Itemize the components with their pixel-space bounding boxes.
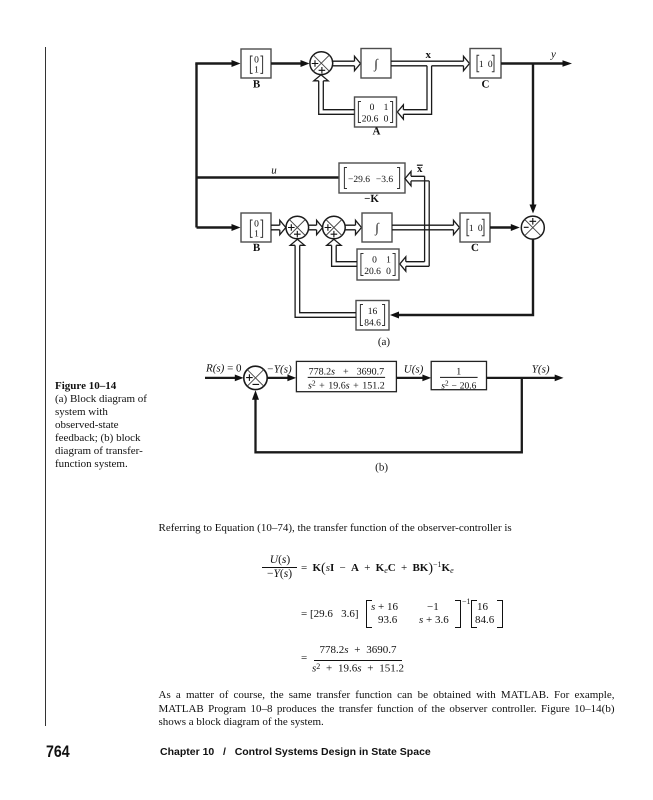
equation 2: [300, 599, 302, 601]
block B1: [241, 49, 271, 78]
footer folio: [46, 743, 70, 762]
equation 3: [300, 643, 302, 645]
svg-text:−29.6: −29.6: [348, 175, 370, 185]
wire: J2m to integrator I2 (vector): [345, 225, 355, 230]
svg-text:0: 0: [384, 115, 389, 125]
svg-text:R(s) = 0: R(s) = 0: [205, 363, 242, 375]
wire: controller to plant: [396, 377, 423, 379]
summing junction J1m: [286, 216, 309, 239]
svg-text:B: B: [253, 242, 261, 254]
block -K: [339, 163, 405, 193]
svg-text:1: 1: [479, 60, 484, 70]
wire: x-tilde into -K (vector): [411, 176, 429, 266]
wire: branch from x down to A1: [403, 66, 431, 115]
svg-text:0: 0: [254, 56, 259, 66]
wire: B2 to J1m (vector): [271, 225, 280, 230]
svg-text:16: 16: [368, 307, 378, 317]
wire: y branch down to J3: [532, 64, 534, 206]
svg-text:1: 1: [254, 66, 259, 76]
wire: A1 back to J1 (vector): [319, 81, 355, 115]
wire: Jb to controller: [267, 377, 289, 379]
svg-text:−3.6: −3.6: [376, 175, 393, 185]
block B2: [241, 213, 271, 242]
wire: I2 to C2 (vector, crosses x-tilde bus): [392, 225, 454, 230]
summing junction J3: [521, 216, 544, 239]
summing junction J1: [310, 52, 333, 75]
svg-text:84.6: 84.6: [364, 319, 381, 329]
wire: u line from -K to bus: [197, 176, 340, 178]
svg-text:(a): (a): [378, 336, 391, 348]
block controller transfer function: [296, 361, 396, 391]
summing junction Jb: [244, 366, 267, 389]
wire: C2 to J3: [490, 226, 512, 228]
block A2: [357, 249, 399, 280]
wire: x-tilde into A2 (vector): [406, 262, 429, 267]
column matrix: [471, 600, 503, 628]
svg-text:1: 1: [254, 230, 259, 240]
svg-text:−Y(s): −Y(s): [267, 364, 292, 376]
block integrator I2: [362, 213, 392, 242]
block Ke: [356, 301, 389, 331]
block C1: [470, 49, 501, 79]
block diagram SVG (figure 10-14 a and b): [0, 0, 653, 500]
svg-text:0: 0: [386, 267, 391, 277]
svg-text:Y(s): Y(s): [532, 364, 550, 376]
body paragraph 1: [159, 522, 512, 534]
svg-text:−K: −K: [364, 193, 379, 205]
svg-text:u: u: [271, 165, 277, 177]
footer running title: [160, 746, 431, 758]
svg-text:s2 + 19.6s + 151.2: s2 + 19.6s + 151.2: [308, 378, 385, 391]
wire: plant to output Y(s): [487, 377, 556, 379]
wire: B1 to sum J1: [271, 62, 302, 64]
wire: into B2: [197, 226, 233, 228]
block plant transfer function: [431, 361, 486, 389]
svg-text:0: 0: [370, 103, 375, 113]
wire: A2 back to J2m (vector): [332, 245, 357, 266]
svg-text:0: 0: [488, 60, 493, 70]
svg-text:(b): (b): [375, 462, 388, 474]
svg-text:1: 1: [386, 256, 391, 266]
wire: into B1: [195, 62, 232, 64]
svg-text:0: 0: [478, 224, 483, 234]
svg-text:0: 0: [254, 220, 259, 230]
svg-text:1: 1: [469, 224, 474, 234]
wire: input to Jb: [205, 377, 236, 379]
wire: J1m to J2m (vector): [309, 225, 317, 230]
wire: I1 to C1 double line, node x: [391, 60, 464, 62]
svg-text:778.2s + 3690.7: 778.2s + 3690.7: [309, 366, 385, 377]
svg-text:20.6: 20.6: [362, 115, 379, 125]
figure caption: [55, 380, 185, 472]
summing junction J2m: [323, 216, 346, 239]
2x2 matrix: [366, 600, 461, 628]
wire: left vertical u-bus: [195, 64, 197, 228]
svg-text:B: B: [253, 79, 261, 91]
svg-text:U(s): U(s): [404, 364, 424, 376]
wire: Ke to J1m (vector): [295, 245, 356, 317]
svg-text:20.6: 20.6: [364, 267, 381, 277]
svg-text:1: 1: [384, 103, 389, 113]
wire: feedback loop of (b): [256, 378, 522, 452]
wire: J3 down and left into Ke block: [398, 239, 533, 315]
svg-text:0: 0: [372, 256, 377, 266]
block C2: [460, 213, 490, 242]
left column rule: [45, 47, 46, 726]
wire: J1 to integrator (vector double line): [332, 61, 355, 66]
svg-text:C: C: [471, 242, 479, 254]
svg-text:C: C: [482, 79, 490, 91]
equation 1: [261, 551, 263, 553]
svg-text:y: y: [550, 49, 556, 61]
block A1: [355, 97, 397, 127]
block integrator I1: [361, 49, 391, 79]
svg-text:1: 1: [456, 366, 461, 377]
svg-text:A: A: [373, 126, 381, 138]
body paragraph 2: [159, 689, 615, 730]
svg-text:x: x: [426, 49, 432, 61]
wire: C1 to output y: [501, 62, 563, 64]
